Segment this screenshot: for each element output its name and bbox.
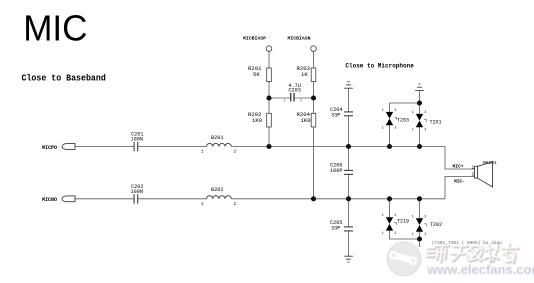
svg-text:Close to Baseband: Close to Baseband xyxy=(22,73,106,84)
svg-text:2: 2 xyxy=(394,108,396,112)
svg-text:1: 1 xyxy=(412,232,414,236)
svg-text:2: 2 xyxy=(394,213,396,217)
svg-text:B201: B201 xyxy=(211,135,223,141)
svg-text:1K: 1K xyxy=(301,71,308,78)
svg-text:100P: 100P xyxy=(330,168,342,174)
svg-text:MK201: MK201 xyxy=(483,160,497,166)
svg-text:33P: 33P xyxy=(331,226,340,232)
svg-text:1K0: 1K0 xyxy=(301,117,312,124)
svg-text:2: 2 xyxy=(300,99,302,103)
svg-text:MICBIASP: MICBIASP xyxy=(243,36,266,42)
svg-text:1: 1 xyxy=(412,110,414,114)
svg-text:2: 2 xyxy=(424,110,426,114)
svg-text:(T201,T202 ( 0805) bu diao: (T201,T202 ( 0805) bu diao xyxy=(432,240,503,246)
svg-text:2: 2 xyxy=(424,128,426,132)
svg-text:T219: T219 xyxy=(397,219,409,225)
svg-text:MIC-: MIC- xyxy=(454,179,465,185)
svg-text:C203: C203 xyxy=(288,88,300,94)
svg-text:33P: 33P xyxy=(331,113,340,119)
svg-text:Close to Microphone: Close to Microphone xyxy=(345,63,414,70)
svg-text:T203: T203 xyxy=(397,118,409,124)
svg-text:1: 1 xyxy=(284,99,286,103)
svg-text:2: 2 xyxy=(472,173,475,178)
svg-text:B202: B202 xyxy=(211,187,223,193)
svg-text:2: 2 xyxy=(424,214,426,218)
svg-text:1: 1 xyxy=(382,213,384,217)
svg-text:1: 1 xyxy=(382,126,384,130)
svg-text:www.elecfans.com: www.elecfans.com xyxy=(426,262,534,277)
svg-text:2: 2 xyxy=(394,231,396,235)
svg-text:1: 1 xyxy=(382,231,384,235)
svg-text:MIC+: MIC+ xyxy=(453,164,464,170)
svg-text:1K0: 1K0 xyxy=(252,117,263,124)
svg-text:2: 2 xyxy=(394,126,396,130)
svg-text:1: 1 xyxy=(412,214,414,218)
svg-text:2: 2 xyxy=(424,232,426,236)
svg-text:T201: T201 xyxy=(430,120,442,126)
svg-text:1: 1 xyxy=(412,128,414,132)
svg-text:5K: 5K xyxy=(253,71,260,78)
svg-text:100N: 100N xyxy=(131,189,143,195)
svg-text:MIC: MIC xyxy=(23,8,87,49)
svg-text:1: 1 xyxy=(382,108,384,112)
svg-text:MICPO: MICPO xyxy=(42,145,57,151)
svg-text:MICNO: MICNO xyxy=(42,197,57,203)
svg-text:MICBIASN: MICBIASN xyxy=(288,36,311,42)
svg-text:1: 1 xyxy=(472,166,475,171)
svg-text:100N: 100N xyxy=(131,137,143,143)
svg-text:T202: T202 xyxy=(430,222,442,228)
